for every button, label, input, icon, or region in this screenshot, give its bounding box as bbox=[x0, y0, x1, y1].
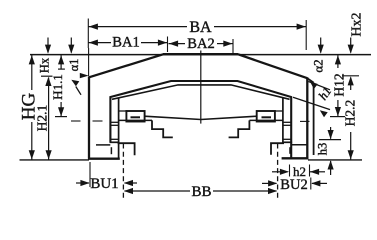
svg-text:H2.1: H2.1 bbox=[34, 105, 49, 132]
dimension BA2 bbox=[169, 43, 186, 45]
left wall groove lines bbox=[110, 121, 118, 123]
dimension h1 bbox=[320, 110, 328, 117]
inner hat inner contour bbox=[112, 85, 290, 99]
outer profile flat top bbox=[163, 53, 238, 55]
h2 right tick bbox=[309, 165, 311, 177]
svg-text:BA2: BA2 bbox=[187, 36, 214, 52]
dimension h3 bbox=[330, 127, 332, 139]
inner shelf line bbox=[144, 116, 257, 119]
h1 outer slope extension bbox=[309, 82, 331, 90]
right clamp block bbox=[257, 111, 275, 122]
BU1 left tick bbox=[89, 162, 91, 187]
dimension h2 bbox=[272, 171, 288, 173]
left clamp dashed extension bbox=[122, 144, 124, 200]
svg-text:BU2: BU2 bbox=[280, 177, 307, 193]
svg-text:BA: BA bbox=[189, 19, 212, 36]
dimension BA1 bbox=[88, 42, 111, 44]
left clamp top connector bbox=[119, 110, 127, 112]
outer profile bottom-left foot bbox=[88, 158, 120, 160]
inner hat right wall back edge bbox=[282, 98, 284, 144]
right clamp top connector bbox=[275, 110, 283, 112]
svg-text:H1.1: H1.1 bbox=[50, 74, 65, 100]
dimension H12 bbox=[337, 55, 339, 68]
svg-text:α2: α2 bbox=[311, 59, 326, 72]
BA left tick bbox=[87, 19, 89, 49]
angle alpha2 bbox=[310, 81, 318, 89]
BU2 right tick bbox=[310, 178, 312, 190]
dimension BU2 bbox=[262, 182, 277, 184]
Hx bottom tick bbox=[41, 75, 53, 77]
dimension H1.1 bbox=[60, 55, 62, 69]
inner hat left wall bottom bbox=[110, 141, 120, 143]
right clamp slot dash bbox=[262, 116, 272, 118]
dimension H2.1 bbox=[48, 78, 50, 151]
H2.2 top tick bbox=[342, 75, 359, 77]
inner hat right wall bottom bbox=[282, 141, 292, 143]
BA right tick bbox=[305, 20, 307, 50]
dimension H2.2 bbox=[350, 78, 352, 90]
right step bbox=[229, 120, 250, 137]
BA2 right tick bbox=[232, 39, 234, 55]
H1.1 mid tick bbox=[58, 68, 65, 70]
dimension BA bbox=[88, 26, 187, 28]
bottom-left extension line bbox=[20, 159, 90, 161]
outside top arrow left bbox=[70, 38, 72, 53]
svg-text:h3: h3 bbox=[316, 143, 330, 156]
vertical centre line bbox=[200, 51, 202, 124]
h2 left tick bbox=[289, 165, 291, 177]
inner hat left wall back edge bbox=[118, 98, 120, 159]
svg-text:H2.2: H2.2 bbox=[343, 100, 358, 127]
svg-text:H12: H12 bbox=[332, 73, 347, 96]
outer profile left slope bbox=[89, 54, 164, 77]
right wall groove lines bbox=[283, 121, 291, 123]
inner hat outer contour bbox=[110, 81, 291, 158]
svg-text:BA1: BA1 bbox=[112, 34, 139, 50]
outer profile right slope bbox=[238, 54, 307, 78]
svg-text:BB: BB bbox=[191, 184, 211, 200]
outer profile right wall bbox=[306, 77, 308, 158]
bottom-right extension line bbox=[308, 159, 362, 161]
H1.1 bottom tick bbox=[55, 116, 67, 118]
right clamp bottom line bbox=[249, 119, 283, 121]
H12 bottom tick bbox=[330, 116, 345, 118]
right bottom flange bbox=[271, 143, 284, 155]
outer profile bottom-right foot bbox=[282, 157, 309, 159]
right clamp dashed extension bbox=[277, 144, 279, 200]
left clamp bottom line bbox=[119, 119, 152, 121]
svg-text:BU1: BU1 bbox=[90, 176, 118, 192]
h3 top extension bbox=[319, 139, 341, 141]
dimension BB bbox=[125, 190, 191, 192]
svg-text:Hx2: Hx2 bbox=[350, 12, 365, 36]
outer profile depth edge top connector bbox=[307, 78, 313, 82]
outer profile right depth edge bbox=[313, 83, 315, 155]
left step bbox=[152, 120, 173, 137]
dimension Hx bbox=[47, 38, 49, 53]
left bottom flange bbox=[118, 143, 135, 155]
svg-text:α1: α1 bbox=[67, 59, 81, 72]
angle alpha1 bbox=[80, 73, 89, 78]
BA1 right tick bbox=[167, 37, 169, 53]
horizontal centre line dashes bbox=[71, 120, 81, 122]
dimension BU1 bbox=[75, 182, 77, 184]
left clamp slot dash bbox=[131, 116, 141, 118]
svg-text:Hx: Hx bbox=[38, 57, 52, 73]
outer profile left wall bbox=[88, 76, 90, 158]
left clamp block bbox=[126, 111, 144, 122]
outside top arrow right bbox=[320, 38, 322, 53]
dimension HG bbox=[31, 55, 33, 90]
dimension Hx2 bbox=[350, 38, 352, 53]
h1 inner slope extension bbox=[293, 97, 330, 109]
top reference line bbox=[30, 54, 371, 56]
